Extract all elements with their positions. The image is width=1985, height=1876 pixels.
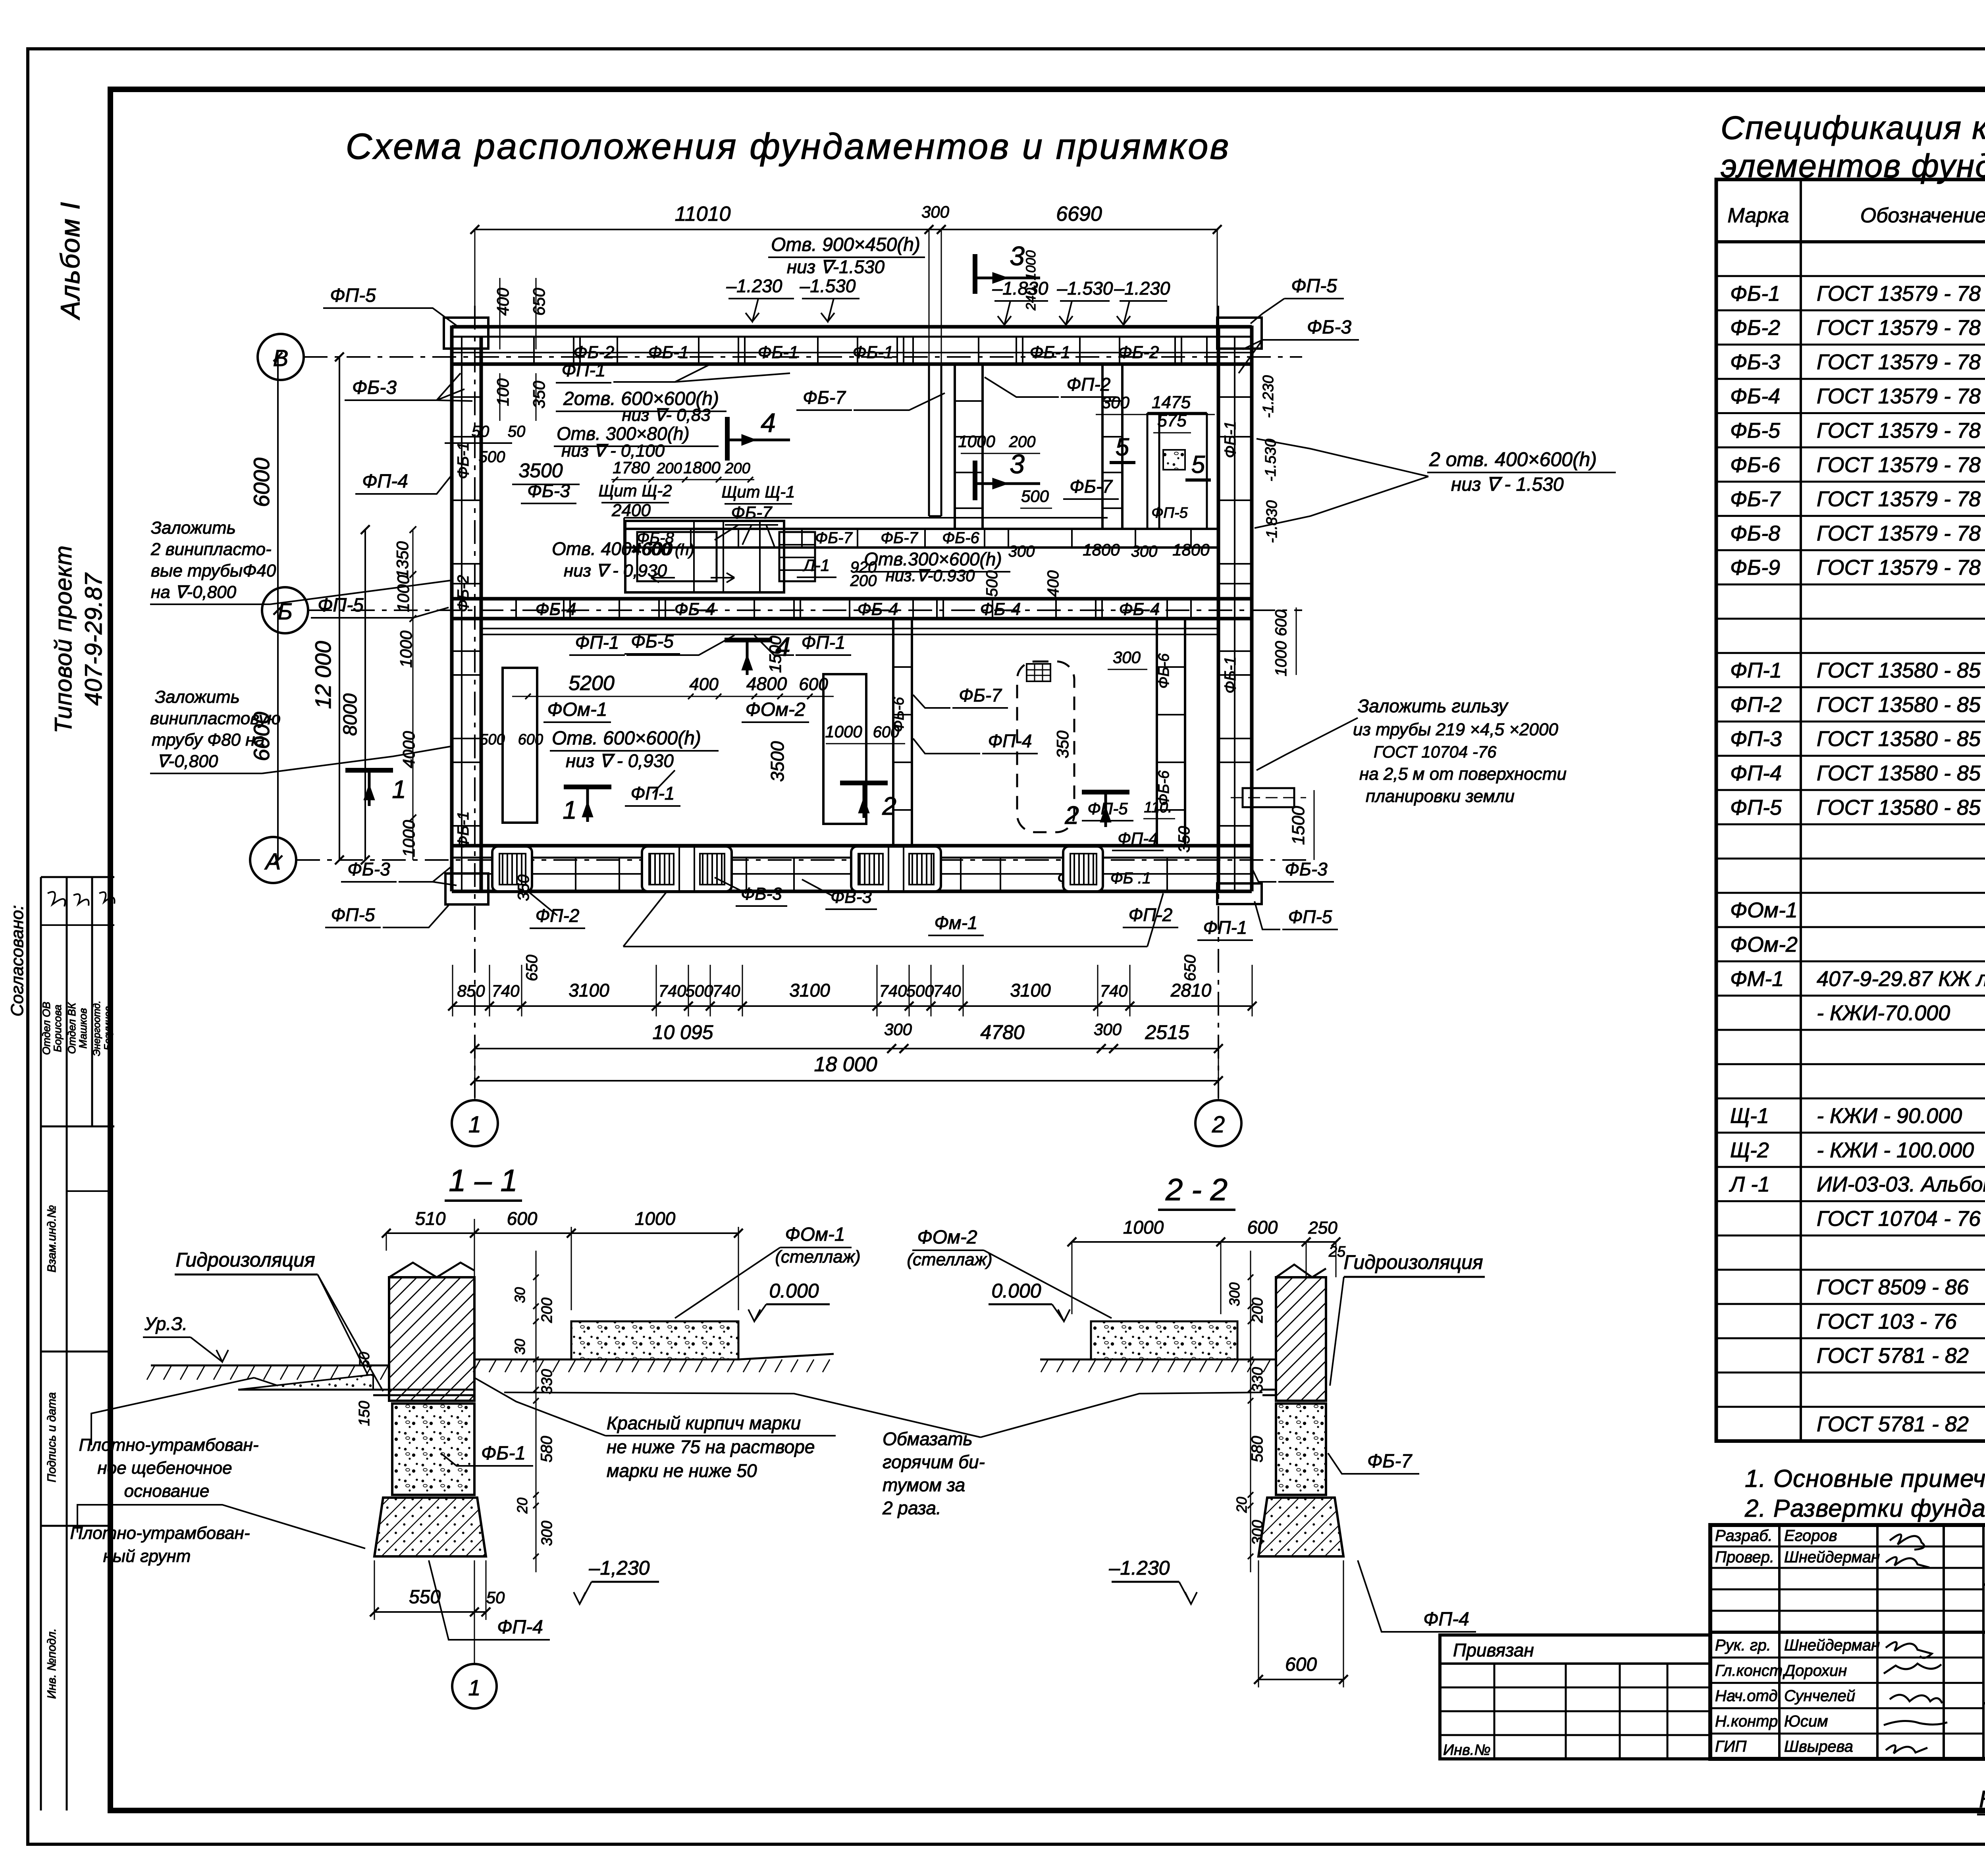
svg-text:(h): (h) <box>675 541 694 559</box>
svg-text:(стеллаж): (стеллаж) <box>775 1247 860 1267</box>
svg-text:-1.530: -1.530 <box>1262 439 1279 482</box>
pit 3 on axis А <box>851 846 941 891</box>
svg-text:ФОм-1: ФОм-1 <box>547 699 607 720</box>
svg-text:ФОм-2: ФОм-2 <box>745 699 805 720</box>
label ФП-5 left mid <box>311 595 449 618</box>
svg-text:не ниже 75 на растворе: не ниже 75 на растворе <box>607 1436 815 1457</box>
svg-text:Плотно-утрамбован-: Плотно-утрамбован- <box>70 1523 250 1543</box>
section 1-1 right dim chain <box>356 1251 555 1572</box>
svg-text:8000: 8000 <box>340 693 361 736</box>
stellazh ФОм-1 <box>503 668 537 823</box>
svg-text:740: 740 <box>933 981 961 1000</box>
room4 pit structure <box>625 521 815 592</box>
svg-text:575: 575 <box>1157 411 1187 430</box>
left dim 8000 <box>340 525 370 864</box>
svg-text:3500: 3500 <box>518 459 563 482</box>
svg-text:ФБ-1: ФБ-1 <box>455 442 472 479</box>
top row labels in plan <box>556 360 1116 425</box>
svg-text:200: 200 <box>656 460 682 477</box>
svg-text:1000: 1000 <box>635 1208 676 1229</box>
svg-text:1000: 1000 <box>397 630 415 668</box>
svg-text:2: 2 <box>1064 801 1079 829</box>
svg-text:ФБ-2: ФБ-2 <box>455 575 472 612</box>
svg-text:11010: 11010 <box>675 202 731 226</box>
svg-text:ФП-5: ФП-5 <box>1291 276 1337 297</box>
corner sub dims top-left <box>493 278 548 421</box>
svg-text:∇-0,800: ∇-0,800 <box>157 752 218 771</box>
svg-text:ФБ-7: ФБ-7 <box>803 387 846 408</box>
svg-text:(стеллаж): (стеллаж) <box>907 1250 992 1269</box>
svg-text:600: 600 <box>1285 1654 1317 1675</box>
title block stamp grid <box>1710 1525 1985 1759</box>
spec table rows <box>1729 247 1985 1436</box>
svg-text:1000: 1000 <box>394 575 412 612</box>
svg-text:300: 300 <box>884 1020 912 1039</box>
svg-text:ФП-4: ФП-4 <box>497 1617 543 1638</box>
svg-text:ФБ-1: ФБ-1 <box>1030 343 1071 362</box>
plotno utrambovannoe osnovanie note <box>79 1378 278 1501</box>
svg-text:ГОСТ 13580 - 85: ГОСТ 13580 - 85 <box>1817 659 1981 683</box>
svg-text:1. Основные примечания смотр: 1. Основные примечания смотреть на листе… <box>1745 1465 1985 1492</box>
svg-text:600: 600 <box>518 731 543 748</box>
svg-text:ФП-4: ФП-4 <box>1730 762 1782 785</box>
pit 1 on axis А <box>492 846 532 891</box>
svg-text:Дорохин: Дорохин <box>1783 1662 1847 1679</box>
svg-text:марки не ниже 50: марки не ниже 50 <box>607 1460 757 1481</box>
section 2-2 floor slab <box>1040 1321 1276 1372</box>
room5 pit walls <box>1147 413 1207 529</box>
svg-text:4800: 4800 <box>746 673 787 694</box>
svg-text:ИИ-03-03. Альбом 71-64: ИИ-03-03. Альбом 71-64 <box>1817 1172 1985 1196</box>
svg-text:2 винипласто-: 2 винипласто- <box>150 540 272 559</box>
bottom chain 1 <box>448 965 1257 1016</box>
svg-text:Инв.№: Инв.№ <box>1443 1742 1491 1758</box>
svg-text:ФОм-1: ФОм-1 <box>1730 898 1798 922</box>
svg-text:1000: 1000 <box>1123 1217 1164 1238</box>
svg-text:трубу Ф80 на: трубу Ф80 на <box>152 730 265 750</box>
svg-text:407-9-29.87 КЖ лист 5: 407-9-29.87 КЖ лист 5 <box>1817 967 1985 991</box>
svg-text:Щ-2: Щ-2 <box>1730 1138 1769 1162</box>
svg-text:ФБ-4: ФБ-4 <box>675 600 715 619</box>
svg-text:2: 2 <box>882 792 896 820</box>
axis circle 1 <box>452 1100 498 1146</box>
gidroizolyaciya label left <box>175 1249 383 1391</box>
svg-text:ГОСТ 13579 - 78: ГОСТ 13579 - 78 <box>1817 487 1981 511</box>
axis line В <box>304 356 1302 358</box>
svg-text:5: 5 <box>1116 434 1129 461</box>
svg-text:Машков: Машков <box>77 1008 89 1049</box>
svg-text:30: 30 <box>512 1287 528 1303</box>
svg-text:ФБ-7: ФБ-7 <box>1730 487 1781 511</box>
svg-text:ГОСТ 5781 - 82: ГОСТ 5781 - 82 <box>1817 1344 1969 1368</box>
svg-text:ГОСТ 103 - 76: ГОСТ 103 - 76 <box>1817 1309 1957 1333</box>
FOm labels <box>543 699 809 722</box>
svg-text:низ ∇- 0,83: низ ∇- 0,83 <box>622 405 711 425</box>
pit 2 on axis А <box>642 846 732 891</box>
svg-text:200: 200 <box>850 572 877 590</box>
bottom chain 2 <box>470 1020 1223 1053</box>
svg-text:50: 50 <box>472 423 490 440</box>
svg-text:50: 50 <box>486 1588 505 1607</box>
dims 1000 600 room <box>766 636 905 782</box>
svg-text:–1.230: –1.230 <box>726 276 782 296</box>
svg-text:1800: 1800 <box>1083 540 1120 559</box>
note zalozhit trubu <box>150 687 451 773</box>
svg-text:ФБ-1: ФБ-1 <box>1730 281 1780 305</box>
svg-text:500: 500 <box>479 448 505 466</box>
svg-text:Заложить: Заложить <box>151 518 236 538</box>
axis line Б <box>308 609 1302 611</box>
section 1-1 floor slab <box>473 1321 834 1372</box>
svg-text:ФБ-1: ФБ-1 <box>1222 656 1239 693</box>
section 1-1 brick wall <box>389 1263 474 1401</box>
svg-text:ГОСТ 13579 - 78: ГОСТ 13579 - 78 <box>1817 384 1981 408</box>
svg-text:200: 200 <box>539 1298 555 1323</box>
label ФП-5 top-left <box>323 285 457 326</box>
top wall axis В <box>452 327 1252 364</box>
svg-text:ФП-5: ФП-5 <box>1730 796 1782 819</box>
svg-text:600: 600 <box>507 1208 538 1229</box>
otv 600x600 <box>480 728 719 771</box>
svg-text:из трубы 219 ×4,5 ×2000: из трубы 219 ×4,5 ×2000 <box>1353 720 1558 739</box>
svg-text:1500: 1500 <box>1289 806 1308 845</box>
svg-text:150: 150 <box>356 1401 373 1426</box>
svg-text:Швырева: Швырева <box>1784 1738 1853 1755</box>
svg-text:горячим би-: горячим би- <box>883 1452 985 1472</box>
svg-text:Привязан: Привязан <box>1453 1640 1534 1660</box>
svg-text:650: 650 <box>530 287 548 316</box>
svg-text:ФБ-7: ФБ-7 <box>731 503 773 523</box>
0.000 level mark 2-2 <box>989 1280 1070 1321</box>
svg-text:18 000: 18 000 <box>814 1053 877 1076</box>
opening note top <box>768 234 925 277</box>
interior wall below Б right <box>1156 619 1185 846</box>
svg-text:3100: 3100 <box>789 980 830 1001</box>
svg-text:300: 300 <box>1249 1520 1266 1545</box>
svg-text:планировки земли: планировки земли <box>1366 787 1515 806</box>
svg-text:510: 510 <box>415 1208 446 1229</box>
note 2 otv 400x600 right <box>1255 439 1616 528</box>
svg-text:300: 300 <box>1094 1020 1122 1039</box>
drawing title <box>346 126 1231 167</box>
svg-text:Плотно-утрамбован-: Плотно-утрамбован- <box>79 1435 259 1455</box>
section flag 4 lower <box>725 632 790 675</box>
svg-text:300: 300 <box>1226 1282 1243 1306</box>
svg-text:Заложить: Заложить <box>155 687 240 707</box>
svg-text:низ ∇ - 0,930: низ ∇ - 0,930 <box>566 750 674 771</box>
svg-text:Красный кирпич марки: Красный кирпич марки <box>607 1413 801 1433</box>
svg-text:ФБ .1: ФБ .1 <box>1110 870 1151 887</box>
obmazat note <box>504 1392 1262 1518</box>
svg-text:на 2,5 м от поверхности: на 2,5 м от поверхности <box>1359 764 1567 784</box>
svg-text:низ ∇-1.530: низ ∇-1.530 <box>787 256 885 277</box>
svg-text:–1.530: –1.530 <box>800 276 856 296</box>
room5 dims <box>958 393 1215 521</box>
svg-text:Инв. №подл.: Инв. №подл. <box>45 1628 58 1699</box>
svg-text:ФБ-2: ФБ-2 <box>1730 316 1780 340</box>
svg-text:250: 250 <box>1308 1218 1337 1238</box>
-1.230 mark 2-2 <box>1109 1557 1197 1604</box>
svg-text:5: 5 <box>1191 451 1205 478</box>
otv 400x600 left band <box>552 538 694 580</box>
top dimension chain <box>470 202 1222 364</box>
svg-text:Разраб.: Разраб. <box>1715 1527 1773 1544</box>
label ФБ-3 left <box>345 373 472 401</box>
section 1-1 waterproofing <box>373 1390 474 1395</box>
svg-text:300: 300 <box>1131 543 1158 560</box>
svg-text:650: 650 <box>1181 955 1199 981</box>
svg-text:Гидроизоляция: Гидроизоляция <box>1343 1251 1483 1273</box>
svg-text:12 000: 12 000 <box>310 641 335 709</box>
svg-text:6000: 6000 <box>249 458 274 507</box>
svg-text:300: 300 <box>921 202 950 221</box>
svg-text:Спецификация к схеме располо: Спецификация к схеме расположения <box>1721 109 1985 146</box>
svg-text:400: 400 <box>689 675 719 694</box>
svg-text:200: 200 <box>725 460 750 477</box>
svg-text:1000: 1000 <box>1272 641 1290 677</box>
svg-text:ФОм-2: ФОм-2 <box>1730 933 1798 956</box>
svg-text:ФП-1: ФП-1 <box>1203 917 1247 938</box>
svg-text:Фм-1: Фм-1 <box>934 912 977 933</box>
svg-text:ФМ-1: ФМ-1 <box>1730 967 1784 991</box>
svg-text:2515: 2515 <box>1145 1021 1189 1043</box>
svg-text:650: 650 <box>523 955 541 981</box>
svg-text:Егоров: Егоров <box>1784 1527 1837 1544</box>
svg-text:10 095: 10 095 <box>653 1021 713 1043</box>
svg-text:4600: 4600 <box>632 540 671 559</box>
svg-text:0.000: 0.000 <box>769 1280 819 1302</box>
label ФП-4 left <box>355 471 451 494</box>
svg-text:110.: 110. <box>1144 799 1172 816</box>
svg-text:1000: 1000 <box>958 432 995 451</box>
svg-text:ФП-4: ФП-4 <box>1423 1609 1469 1630</box>
section title 1-1 <box>445 1163 522 1201</box>
svg-text:300: 300 <box>1008 543 1035 560</box>
stamp signature rows <box>1715 1527 1947 1755</box>
svg-text:2: 2 <box>1212 1112 1225 1138</box>
svg-text:ГИП: ГИП <box>1715 1738 1747 1755</box>
corner plate bottom-right <box>1217 883 1262 904</box>
privyazan table <box>1440 1635 1710 1759</box>
svg-text:330: 330 <box>1249 1367 1266 1392</box>
axis circle Б <box>262 587 308 633</box>
svg-text:1: 1 <box>468 1112 481 1138</box>
svg-text:Безумнов: Безумнов <box>102 1006 114 1050</box>
svg-text:Нач.отд.: Нач.отд. <box>1715 1687 1782 1705</box>
svg-text:ФП-2: ФП-2 <box>1129 904 1173 925</box>
left dim 6000 x2 <box>249 353 282 864</box>
spec table title <box>1721 109 1985 184</box>
svg-text:ФП-1: ФП-1 <box>802 632 846 653</box>
krasny kirpich note <box>474 1378 836 1481</box>
axis circle В <box>258 334 304 380</box>
svg-text:30: 30 <box>512 1339 528 1355</box>
section 2-2 left dim chain <box>1226 1251 1266 1572</box>
svg-text:Марка: Марка <box>1727 204 1789 227</box>
svg-text:330: 330 <box>539 1369 555 1394</box>
svg-text:580: 580 <box>1249 1436 1266 1463</box>
svg-text:Энергоотд.: Энергоотд. <box>91 1001 102 1056</box>
svg-text:низ ∇ - 0,930: низ ∇ - 0,930 <box>564 561 667 580</box>
svg-text:300: 300 <box>1102 393 1130 412</box>
svg-text:4780: 4780 <box>980 1021 1024 1043</box>
svg-text:580: 580 <box>538 1436 555 1463</box>
soglasovano block <box>8 877 114 1126</box>
svg-text:Отдел ВК: Отдел ВК <box>66 1002 78 1054</box>
svg-text:350: 350 <box>530 380 548 409</box>
svg-text:ГОСТ 13580 - 85: ГОСТ 13580 - 85 <box>1817 762 1981 785</box>
svg-text:ФП-5: ФП-5 <box>1288 906 1332 927</box>
svg-text:ФБ-3: ФБ-3 <box>1730 350 1780 374</box>
svg-text:ФБ-1: ФБ-1 <box>481 1443 526 1464</box>
svg-text:ФВ-3: ФВ-3 <box>741 884 782 904</box>
svg-text:1 – 1: 1 – 1 <box>449 1163 517 1198</box>
section 2-2 FP-4 footing <box>1258 1498 1476 1632</box>
FOm-1 stellazh label <box>675 1224 861 1318</box>
svg-text:ГОСТ 8509 - 86: ГОСТ 8509 - 86 <box>1817 1275 1969 1299</box>
svg-text:Отв. 600×600(h): Отв. 600×600(h) <box>552 728 701 749</box>
spec table grid <box>1716 179 1985 1441</box>
svg-text:ФБ-1: ФБ-1 <box>853 343 894 362</box>
bottom wall axis А <box>452 846 1252 891</box>
left wall chain dims <box>393 526 418 860</box>
level marks top-left <box>726 276 860 322</box>
svg-text:ФБ-3: ФБ-3 <box>1307 317 1351 338</box>
svg-text:850: 850 <box>457 981 485 1000</box>
svg-text:–1.530: –1.530 <box>1057 278 1113 299</box>
svg-text:ФОм-2: ФОм-2 <box>917 1227 977 1248</box>
svg-text:ФБ-2: ФБ-2 <box>1118 343 1159 362</box>
album label <box>55 201 85 320</box>
level marks top-right <box>992 278 1170 325</box>
svg-text:5200: 5200 <box>569 672 615 695</box>
dashed pit outline <box>1017 661 1074 832</box>
svg-text:ФБ-1: ФБ-1 <box>1222 421 1239 458</box>
section 2-2 FB-7 block <box>1276 1404 1419 1495</box>
svg-text:Согласовано:: Согласовано: <box>8 905 27 1017</box>
svg-text:вые трубыФ40: вые трубыФ40 <box>151 561 276 580</box>
svg-text:ФОм-1: ФОм-1 <box>785 1224 845 1245</box>
svg-text:ГОСТ 13580 - 85: ГОСТ 13580 - 85 <box>1817 796 1981 819</box>
svg-text:350: 350 <box>1053 730 1072 758</box>
svg-text:1475: 1475 <box>1152 393 1191 412</box>
svg-text:Отдел ОВ: Отдел ОВ <box>40 1002 52 1055</box>
axis circle 1 below section <box>452 1560 497 1708</box>
svg-text:2 раза.: 2 раза. <box>882 1498 941 1518</box>
-1.230 mark 1-1 <box>574 1557 659 1604</box>
section flags 5 room5 <box>1110 434 1211 480</box>
spec table header <box>1727 191 1985 234</box>
interior wall room3 left <box>955 364 983 529</box>
svg-text:2. Развертки фундаментов на: 2. Развертки фундаментов на листах 4 ; 5… <box>1744 1495 1985 1522</box>
svg-text:ФБ-9: ФБ-9 <box>1730 556 1780 580</box>
svg-text:740: 740 <box>491 981 520 1000</box>
svg-text:ГОСТ 13579 - 78: ГОСТ 13579 - 78 <box>1817 316 1981 340</box>
svg-text:Взам.инд.№: Взам.инд.№ <box>45 1205 58 1273</box>
svg-text:3500: 3500 <box>767 741 788 782</box>
svg-text:500: 500 <box>983 571 1001 597</box>
svg-text:1780: 1780 <box>613 458 650 477</box>
svg-text:Щ-1: Щ-1 <box>1730 1104 1769 1128</box>
svg-text:Обозначение: Обозначение <box>1860 204 1985 227</box>
corner plate top-left ФП-5 <box>444 318 488 349</box>
svg-text:4000: 4000 <box>399 731 418 768</box>
svg-text:1800: 1800 <box>683 458 721 477</box>
svg-text:ФБ-8: ФБ-8 <box>1730 521 1780 545</box>
svg-text:ФБ-6: ФБ-6 <box>1156 653 1172 689</box>
svg-text:ФП-2: ФП-2 <box>1067 374 1111 395</box>
svg-text:300: 300 <box>539 1521 555 1546</box>
svg-text:ФБ-6: ФБ-6 <box>1730 453 1781 477</box>
axis circle 2 <box>1195 1100 1241 1146</box>
svg-text:600: 600 <box>799 675 828 694</box>
left bottom boxes <box>41 1126 110 1810</box>
svg-text:на ∇-0,800: на ∇-0,800 <box>151 582 237 602</box>
svg-text:–1.230: –1.230 <box>1114 278 1170 299</box>
FOm-2 stellazh label <box>907 1227 1112 1318</box>
svg-text:2400: 2400 <box>611 501 651 520</box>
labels below А wall <box>325 859 1253 981</box>
section flag 4 upper <box>727 408 790 461</box>
svg-text:ФБ-3: ФБ-3 <box>347 859 390 879</box>
svg-text:- КЖИ - 100.000: - КЖИ - 100.000 <box>1817 1138 1974 1162</box>
svg-text:4: 4 <box>761 408 776 438</box>
svg-text:ФБ-3: ФБ-3 <box>527 480 570 501</box>
dims 1780 200 1800 200 <box>611 458 754 482</box>
bottom strip <box>1977 1761 1985 1815</box>
svg-text:740: 740 <box>658 981 686 1000</box>
svg-text:ФВ-3: ФВ-3 <box>831 887 872 907</box>
upper interior wall band <box>624 518 1218 548</box>
svg-text:600: 600 <box>873 723 900 741</box>
svg-text:740: 740 <box>1100 981 1128 1000</box>
svg-text:ГОСТ 13580 - 85: ГОСТ 13580 - 85 <box>1817 727 1981 751</box>
svg-text:100: 100 <box>493 378 512 406</box>
plotno utrambovanny grunt note <box>70 1505 365 1566</box>
svg-text:Рук. гр.: Рук. гр. <box>1715 1637 1771 1654</box>
svg-text:Шнейдерман: Шнейдерман <box>1784 1548 1880 1566</box>
svg-text:500: 500 <box>906 981 934 1000</box>
interior wall room3-5 <box>1102 364 1122 529</box>
dim 600 under 2-2 <box>1254 1560 1348 1687</box>
right rotated level labels <box>1260 375 1314 860</box>
right wall axis 2 <box>1218 326 1252 891</box>
section 2-2 brick wall <box>1262 1265 1326 1401</box>
svg-text:Юсим: Юсим <box>1784 1712 1828 1730</box>
pit 4 on axis А <box>1063 846 1103 891</box>
corner plate top-right ФП-5 <box>1217 318 1262 349</box>
svg-text:500: 500 <box>685 981 713 1000</box>
svg-text:200: 200 <box>1249 1298 1266 1323</box>
svg-text:1500: 1500 <box>766 636 784 673</box>
svg-text:2810: 2810 <box>1170 980 1212 1001</box>
labels FB-7 FP-4 middle <box>913 648 1147 758</box>
svg-text:20: 20 <box>1233 1497 1250 1513</box>
svg-text:6690: 6690 <box>1056 202 1102 226</box>
svg-text:1000: 1000 <box>399 820 418 857</box>
schit labels <box>521 480 795 548</box>
0.000 level mark 1-1 <box>748 1280 830 1321</box>
svg-text:ГОСТ 13579 - 78: ГОСТ 13579 - 78 <box>1817 419 1981 443</box>
svg-text:ФП-2: ФП-2 <box>1730 693 1782 717</box>
svg-text:Сунчелей: Сунчелей <box>1784 1687 1855 1705</box>
svg-text:ный грунт: ный грунт <box>103 1546 191 1566</box>
svg-text:1800: 1800 <box>1172 540 1210 559</box>
svg-text:ГОСТ 5781 - 82: ГОСТ 5781 - 82 <box>1817 1412 1969 1436</box>
svg-text:1: 1 <box>468 1675 480 1700</box>
section 2-2 top dims <box>1068 1217 1346 1314</box>
section 1-1 FB-1 block <box>392 1404 533 1495</box>
